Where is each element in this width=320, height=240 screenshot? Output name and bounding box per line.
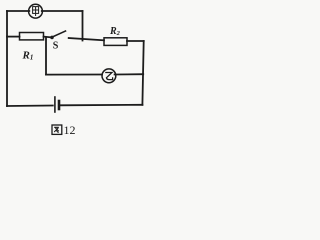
svg-text:12: 12 [64,123,76,137]
svg-text:S: S [53,40,59,51]
